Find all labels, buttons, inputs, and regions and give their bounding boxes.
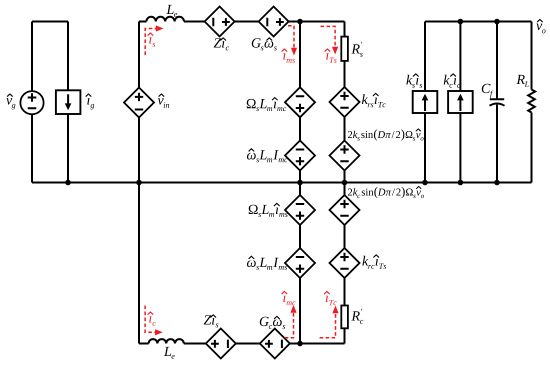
junction node middle rail ks branch — [422, 180, 428, 186]
label i_c red — [149, 316, 156, 325]
wire Cf branch — [496, 22, 498, 183]
label k_rc i_Ts — [362, 256, 386, 269]
inductor Le bottom — [149, 339, 184, 343]
arrow i_s — [145, 29, 156, 56]
arrow i_Tc — [320, 313, 336, 338]
hat of v_o — [537, 20, 542, 22]
junction node middle rail vin branch — [136, 180, 142, 186]
junction node top rail Cf branch — [494, 19, 500, 25]
label Le bottom — [164, 347, 175, 359]
wire left loop right vertical — [67, 22, 69, 183]
dependent source Zi_c (top) — [205, 7, 235, 37]
dependent source 2ks_sin top — [330, 141, 360, 171]
wire bottom rail — [184, 343, 345, 345]
hat of k_rs i_Tc — [373, 93, 378, 95]
red current arrows — [145, 26, 335, 338]
dependent source Gs_ws (top) — [259, 7, 289, 37]
arrowhead i_Ts — [332, 47, 338, 55]
wire v_in branch vertical — [138, 22, 140, 344]
hat of kc_ic — [451, 74, 456, 76]
hat of 2kc sin v_o — [417, 186, 421, 188]
label Omega_s Lm i_ms — [249, 205, 288, 217]
junction node middle rail right column — [342, 180, 348, 186]
wire output top rail — [425, 21, 532, 23]
label ks_is — [406, 75, 422, 88]
resistor R's — [341, 37, 348, 61]
arrowhead i_Tc — [332, 306, 338, 314]
voltage source v_g — [20, 91, 43, 114]
label RL — [516, 75, 528, 87]
hat of i_Ts red — [325, 49, 330, 51]
wire middle rail — [32, 182, 532, 184]
wire center column vertical — [299, 22, 301, 344]
junction node top rail kc branch — [458, 19, 464, 25]
dependent source v_in — [124, 88, 154, 118]
hat of v_g — [7, 94, 12, 96]
junction node middle rail center column — [297, 180, 303, 186]
wire RL branch — [531, 22, 533, 183]
label v_in — [158, 98, 170, 108]
wire right column vertical — [344, 22, 346, 344]
hat of i_ms red — [282, 49, 287, 51]
label v_g — [6, 98, 15, 109]
label Gc_ws bottom — [260, 317, 285, 329]
resistor RL zigzag — [528, 90, 535, 113]
label i_s red — [149, 37, 155, 46]
hat of Zi_s — [211, 315, 216, 317]
hat of i_s red — [148, 33, 153, 35]
inductor Le top — [146, 17, 184, 22]
dependent source Omega_s Lm i_ms — [285, 195, 315, 225]
label Cf — [482, 84, 493, 98]
hat of Omega_s Lm i_mc — [272, 98, 277, 100]
junction node middle rail Cf branch — [494, 180, 500, 186]
wire top rail to inductor — [139, 21, 146, 23]
label w_s Lm I_mc — [247, 150, 288, 162]
junction node middle rail ig branch — [65, 180, 71, 186]
hat of v_in — [159, 94, 164, 96]
current source kc_ic — [448, 91, 473, 113]
arrowhead i_mc — [290, 305, 296, 313]
label kc_ic — [444, 75, 461, 88]
wire ks branch — [424, 22, 426, 183]
label k_rs i_Tc — [362, 94, 386, 107]
hat of Zi_c — [221, 38, 226, 40]
junction node bottom rail center column — [297, 341, 303, 347]
label 2ks sin top — [348, 129, 424, 140]
dependent source Gc_ws (bottom) — [260, 329, 290, 359]
hat of i_c red — [148, 312, 153, 314]
label Zi_s bottom — [204, 315, 219, 327]
hat of w_s Lm I_ms — [249, 256, 254, 258]
current source i_g — [56, 90, 81, 114]
label i_mc red — [283, 296, 295, 305]
hat of 2ks sin v_o — [416, 129, 420, 131]
hat of Gc_ws — [274, 316, 279, 318]
dependent source 2kc_sin bottom — [330, 195, 360, 225]
dependent source k_rc i_Ts — [330, 248, 360, 278]
wire left loop left vertical — [31, 22, 33, 183]
wire top rail — [184, 21, 345, 23]
label v_o — [536, 24, 545, 34]
label Omega_s Lm i_mc — [247, 99, 286, 111]
hat of ks_is — [413, 74, 418, 76]
current source ks_is — [413, 91, 438, 113]
label Zi_c — [214, 38, 229, 50]
wire left loop top — [32, 21, 68, 23]
wire kc branch — [459, 22, 461, 183]
hat of i_Tc red — [324, 292, 329, 294]
arrow i_ms — [288, 26, 294, 48]
arrow i_mc — [285, 312, 294, 338]
dependent source Omega_s Lm i_mc — [285, 87, 315, 117]
label R_c prime — [351, 309, 363, 324]
label R_s prime — [351, 42, 362, 57]
junction node top rail center column — [297, 19, 303, 25]
hat of i_g — [86, 94, 91, 96]
label Le top — [166, 5, 177, 17]
resistor R'c — [341, 306, 348, 329]
arrow i_c — [145, 306, 156, 333]
hat of Omega_s Lm i_ms — [274, 203, 279, 205]
hat of i_mc red — [282, 292, 287, 294]
label Gs_ws — [252, 38, 277, 50]
label i_g — [87, 98, 94, 109]
label w_s Lm I_ms — [247, 258, 287, 270]
arrowhead i_ms — [291, 48, 297, 56]
label 2kc sin bottom — [348, 187, 424, 198]
hat of k_rc i_Ts — [374, 255, 379, 257]
label i_Ts red — [326, 53, 336, 62]
arrow i_Ts — [321, 26, 336, 48]
dependent source w_s Lm I_mc — [285, 141, 315, 171]
hat of w_s Lm I_mc — [249, 149, 254, 151]
label i_ms red — [283, 53, 295, 62]
dependent source k_rs i_Tc — [330, 87, 360, 117]
capacitor Cf — [490, 99, 505, 106]
arrowhead i_c — [155, 329, 163, 335]
dependent source Zi_s (bottom) — [206, 329, 236, 359]
dependent source w_s Lm I_ms — [285, 248, 315, 278]
wire bottom rail to inductor — [139, 343, 149, 345]
hat of Gs_ws — [267, 38, 272, 40]
junction node middle rail kc branch — [458, 180, 464, 186]
label i_Tc red — [326, 296, 337, 305]
arrowhead i_s — [156, 25, 164, 31]
